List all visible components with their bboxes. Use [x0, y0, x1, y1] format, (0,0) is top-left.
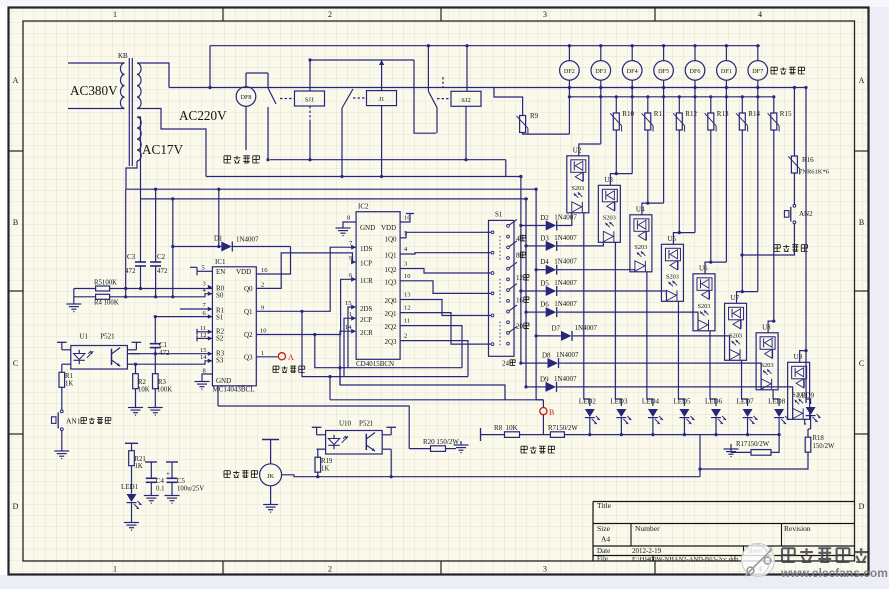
svg-text:8: 8	[347, 215, 350, 222]
svg-text:S203: S203	[571, 185, 584, 192]
resistor R7	[550, 432, 564, 438]
svg-text:8: 8	[516, 252, 520, 260]
svg-text:472: 472	[157, 267, 168, 275]
capacitor C5	[166, 461, 178, 463]
svg-text:1DS: 1DS	[360, 245, 373, 253]
proximity switch JK	[262, 439, 279, 441]
switch S1 arms	[509, 219, 517, 225]
svg-text:1Q3: 1Q3	[384, 279, 397, 287]
svg-text:D: D	[859, 502, 865, 511]
svg-text:2Q2: 2Q2	[384, 323, 397, 331]
svg-text:D6: D6	[540, 301, 549, 309]
wire IC2 2CP pin1	[344, 318, 351, 376]
svg-text:R1: R1	[65, 373, 73, 380]
wire contactor low bus	[270, 159, 506, 161]
optocoupler U10 P521	[326, 431, 383, 455]
ic IC2 CD4015BCN	[356, 212, 400, 360]
diode D3	[538, 245, 546, 247]
ground IC1	[202, 374, 212, 381]
label shoudong geichu	[774, 245, 780, 252]
wire link to U5	[673, 233, 695, 245]
svg-text:10K: 10K	[138, 387, 150, 394]
svg-text:R3: R3	[158, 379, 167, 386]
node B	[542, 400, 544, 407]
svg-text:IC2: IC2	[358, 203, 369, 211]
wire S1 to D6	[526, 311, 538, 313]
svg-text:VDD: VDD	[381, 224, 396, 232]
wire LED rail	[564, 434, 779, 436]
resistor R14	[739, 113, 745, 130]
svg-text:R15: R15	[780, 110, 792, 118]
svg-text:C4: C4	[156, 478, 165, 485]
switch for J1	[353, 97, 367, 99]
svg-text:S0: S0	[216, 292, 224, 300]
svg-text:D5: D5	[540, 280, 549, 288]
resistor R17	[724, 448, 739, 450]
svg-text:B: B	[13, 218, 18, 227]
svg-text:1N4007: 1N4007	[556, 351, 579, 359]
led LED3	[615, 242, 621, 406]
wire resistor top bus	[569, 96, 773, 98]
svg-text:P521: P521	[100, 333, 115, 341]
svg-text:E:\HJ400W-NHAN2-AND-B63-2cc.dd: E:\HJ400W-NHAN2-AND-B63-2cc.ddb	[632, 556, 738, 563]
svg-text:U6: U6	[699, 264, 708, 272]
svg-text:1N4007: 1N4007	[554, 279, 577, 287]
led LED5	[678, 301, 684, 406]
wire DF column 7	[725, 88, 727, 263]
label tuijin qigang	[224, 156, 231, 163]
svg-text:GND: GND	[216, 377, 231, 385]
wire link to U3	[610, 174, 632, 186]
svg-text:1N4007: 1N4007	[575, 324, 598, 332]
svg-text:LED6: LED6	[705, 398, 723, 406]
svg-text:IC1: IC1	[215, 258, 226, 266]
svg-text:EN: EN	[216, 268, 225, 276]
svg-text:1: 1	[113, 565, 117, 574]
relay coil J1	[367, 91, 397, 106]
svg-text:9: 9	[261, 305, 264, 312]
svg-text:DF4: DF4	[627, 68, 638, 75]
svg-text:AC17V: AC17V	[142, 142, 184, 157]
svg-text:1K: 1K	[135, 463, 143, 470]
wire bus riser	[209, 46, 211, 88]
wire mesh 5	[347, 367, 349, 369]
svg-text:A4: A4	[601, 535, 610, 544]
svg-text:R19: R19	[321, 458, 333, 465]
led LED8	[773, 390, 779, 406]
svg-text:2012-2-19: 2012-2-19	[632, 547, 662, 555]
svg-text:AC380V: AC380V	[70, 83, 118, 98]
svg-text:LED5: LED5	[673, 398, 691, 406]
led LED4	[647, 272, 653, 406]
svg-text:472: 472	[125, 267, 136, 275]
svg-text:LED8: LED8	[768, 398, 786, 406]
svg-text:DF8: DF8	[240, 94, 251, 101]
resistor R12	[676, 113, 682, 130]
wire IC2 outputs to S1	[400, 232, 478, 238]
svg-text:Date: Date	[597, 547, 610, 555]
wire B mesh	[330, 399, 543, 401]
resistor R3	[154, 354, 156, 374]
svg-text:12: 12	[516, 274, 524, 282]
wire D3 to U3	[564, 242, 603, 246]
svg-text:R12: R12	[685, 110, 697, 118]
led LED6	[710, 331, 716, 406]
resistor R9	[520, 116, 526, 133]
wire diode collector 3	[535, 226, 537, 400]
ground JK	[270, 486, 272, 504]
svg-text:24: 24	[502, 359, 510, 367]
svg-text:2: 2	[328, 10, 332, 19]
switch contact near DF8	[267, 73, 269, 88]
svg-text:AN1: AN1	[66, 417, 81, 426]
resistor R21	[125, 442, 138, 444]
svg-text:2Q1: 2Q1	[384, 310, 397, 318]
wire R bottom drop	[710, 130, 712, 262]
svg-text:R18: R18	[813, 435, 825, 442]
svg-text:5: 5	[202, 265, 205, 272]
svg-text:14: 14	[200, 354, 207, 361]
svg-text:2Q0: 2Q0	[384, 297, 397, 305]
wire IC1 EN pin5	[197, 270, 212, 272]
svg-text:D2: D2	[540, 214, 549, 222]
svg-text:150/2W: 150/2W	[813, 443, 835, 450]
wire top DF bus	[210, 45, 760, 47]
svg-text:13: 13	[404, 292, 411, 299]
wire 17V rail 1	[126, 188, 535, 190]
wire IC1 R3 pin15	[130, 353, 213, 355]
wire S1 to D2	[521, 225, 538, 227]
wire contactor bottom bus	[206, 176, 521, 178]
wire R bottom drop	[773, 130, 775, 321]
label xunhuan maichong	[521, 446, 527, 453]
svg-text:12: 12	[404, 305, 411, 312]
wire DF column 4	[631, 88, 633, 174]
wire IC1 Q1 pin9	[256, 247, 356, 311]
wire SJ2 coil top	[466, 46, 468, 92]
diode D5	[538, 290, 546, 292]
svg-text:U1: U1	[79, 333, 88, 341]
svg-text:1CR: 1CR	[360, 277, 373, 285]
wire DF column 8	[757, 88, 759, 292]
wire to U9 top	[800, 351, 806, 363]
wire link to U7	[737, 292, 758, 304]
wire D2 to U2	[564, 213, 572, 226]
wire U1 collector to IC1	[127, 353, 140, 355]
svg-text:Number: Number	[635, 524, 660, 533]
svg-text:2: 2	[328, 565, 332, 574]
lamp DF8	[236, 87, 256, 107]
lamp DF5	[663, 46, 665, 61]
wire D8 to U8	[566, 363, 761, 390]
wire D7 to U7	[580, 336, 730, 360]
wire DF column 5	[663, 88, 665, 204]
opto-triac U9	[788, 362, 810, 419]
wire DF8 top	[245, 73, 247, 87]
svg-text:File: File	[597, 555, 608, 563]
svg-text:1Q2: 1Q2	[384, 266, 397, 274]
wire IC2 VDD pin16	[400, 214, 410, 223]
svg-text:Revision: Revision	[784, 524, 811, 533]
svg-text:20: 20	[516, 323, 524, 331]
wire IC1 S0 pin4	[110, 294, 213, 297]
svg-text:A: A	[13, 76, 19, 85]
svg-text:4: 4	[516, 235, 520, 243]
border zone ticks	[222, 8, 224, 22]
lamp DF4	[631, 46, 633, 61]
diode D6	[538, 311, 546, 313]
svg-text:SJ1: SJ1	[305, 97, 314, 104]
svg-text:Q3: Q3	[244, 354, 253, 362]
resistor R1	[61, 364, 63, 372]
wire R9 bottom link	[523, 133, 570, 135]
svg-text:LED7: LED7	[737, 398, 755, 406]
diode D2	[538, 225, 546, 227]
ground AN1	[54, 450, 69, 452]
wire AC17V top tap	[137, 117, 141, 199]
svg-text:C2: C2	[157, 253, 166, 261]
wire S1 to D9	[526, 386, 538, 388]
wire link to U8	[768, 321, 774, 333]
opto-triac U8	[756, 333, 778, 390]
svg-text:R13: R13	[717, 110, 729, 118]
wire rail1 drop	[218, 189, 220, 246]
ic IC1 input arrows	[208, 285, 213, 289]
lamp DF2	[568, 46, 570, 61]
svg-text:B: B	[549, 408, 554, 417]
svg-text:472: 472	[159, 349, 170, 357]
lamp DF7	[757, 46, 759, 61]
resistor R20	[218, 406, 409, 449]
svg-text:R14: R14	[748, 110, 760, 118]
svg-text:CD4015BCN: CD4015BCN	[356, 360, 394, 368]
svg-text:U4: U4	[636, 205, 645, 213]
capacitor C3	[140, 199, 142, 262]
wire D5 to U5	[564, 291, 666, 301]
ground LED1	[131, 503, 133, 522]
diode D4	[538, 269, 546, 271]
svg-text:C: C	[859, 359, 864, 368]
wire DF8 bottom	[245, 106, 247, 150]
wire link to U2	[579, 144, 601, 156]
svg-text:U5: U5	[667, 235, 676, 243]
svg-text:4: 4	[758, 10, 762, 19]
wire R9 top	[494, 88, 523, 116]
resistor R10	[613, 113, 619, 130]
svg-text:Size: Size	[597, 524, 611, 533]
svg-text:+: +	[166, 470, 170, 478]
resistor R5	[96, 286, 110, 291]
svg-text:R7150/2W: R7150/2W	[548, 425, 578, 432]
svg-text:C: C	[13, 359, 18, 368]
wire J1 bottom	[381, 106, 383, 177]
svg-text:7NR61K*6: 7NR61K*6	[799, 169, 830, 176]
opto-triac U3	[598, 185, 620, 242]
svg-text:D4: D4	[540, 258, 549, 266]
svg-text:LED9: LED9	[797, 392, 815, 400]
svg-text:1Q1: 1Q1	[384, 252, 397, 260]
wire U9 to LED9 col	[805, 419, 806, 424]
svg-text:LED2: LED2	[579, 398, 597, 406]
svg-text:D9: D9	[540, 375, 549, 383]
wire collector top links	[520, 177, 522, 224]
wire secondary mid tap	[137, 109, 206, 177]
svg-text:2CR: 2CR	[360, 329, 373, 337]
watermark text	[782, 548, 795, 562]
svg-text:S203: S203	[666, 273, 679, 280]
led LED9	[806, 399, 811, 404]
wire R bottom drop	[678, 130, 680, 233]
resistor R8	[480, 428, 482, 441]
opto-triac U5	[661, 244, 683, 301]
resistor R16	[791, 156, 797, 173]
diode D7	[554, 335, 562, 337]
svg-text:U9: U9	[794, 353, 803, 361]
svg-text:D7: D7	[552, 324, 561, 332]
svg-text:1N4007: 1N4007	[236, 236, 259, 244]
wire R bottom drop	[647, 130, 649, 203]
wire IC1 Q3 pin1	[256, 356, 277, 358]
wire IC2 2CR pin14	[340, 331, 351, 385]
wire IC1 Q2 pin10	[256, 279, 356, 334]
wire low bus drop	[505, 160, 507, 177]
svg-text:LED3: LED3	[610, 398, 628, 406]
svg-text:JK: JK	[267, 473, 275, 480]
lamp DF6	[694, 46, 696, 61]
wire IC1 Q0 pin2	[256, 253, 356, 289]
svg-text:KB: KB	[118, 52, 128, 60]
ic IC2 input arrows	[351, 245, 356, 250]
wire right vertical bus	[805, 88, 807, 404]
svg-text:DF5: DF5	[658, 68, 669, 75]
wire mid bus drop	[414, 60, 436, 133]
svg-text:R17150/2W: R17150/2W	[736, 441, 770, 448]
wire IC1 S2 pin12	[197, 337, 212, 339]
resistor R2	[135, 364, 137, 374]
resistor R19	[317, 449, 318, 458]
wire R18 bottom	[700, 452, 808, 477]
svg-text:AC220V: AC220V	[179, 108, 227, 123]
wire DF column 2	[568, 88, 570, 135]
wire mesh 1	[302, 311, 468, 376]
ic IC1 MC14043BCL	[212, 267, 256, 386]
svg-text:Title: Title	[597, 501, 612, 510]
opto-triac U6	[693, 274, 715, 331]
svg-text:A: A	[288, 353, 294, 362]
resistor R13	[708, 113, 714, 130]
wire mesh 3	[340, 368, 505, 400]
wire IC1 S1 pin6	[155, 316, 212, 318]
wire SJ1 bottom	[309, 106, 311, 122]
wire D9 to U9	[564, 387, 793, 419]
pushbutton AN2	[793, 173, 795, 204]
wire rail drop to R5	[125, 189, 127, 297]
wire R16 column	[793, 88, 795, 157]
wire D1 anode feed	[520, 224, 522, 363]
svg-text:R21: R21	[135, 456, 146, 463]
svg-text:P521: P521	[359, 420, 374, 428]
svg-text:1K: 1K	[321, 466, 329, 473]
wire U10 emitter	[390, 449, 392, 477]
wire S1 to D7	[536, 335, 553, 337]
wire mesh 4	[329, 377, 331, 400]
svg-text:15: 15	[200, 347, 207, 354]
transformer KB	[120, 63, 124, 109]
relay coil SJ2	[451, 91, 481, 106]
wire D4 to U4	[564, 270, 635, 272]
wire SJ2 switch bottom	[436, 108, 438, 134]
svg-text:C3: C3	[127, 253, 136, 261]
wire DF column 6	[694, 88, 696, 233]
wire S1 to D4	[536, 269, 538, 271]
switch for SJ2	[437, 98, 451, 100]
pushbutton AN1	[61, 387, 63, 410]
svg-text:12: 12	[200, 332, 207, 339]
lamp DF1	[725, 46, 727, 61]
wire IC1 R0 pin3	[110, 288, 213, 290]
svg-text:S203: S203	[634, 244, 647, 251]
wire AC17V bottom tap	[126, 161, 137, 189]
switch for SJ1	[280, 98, 295, 100]
switch block S1	[489, 220, 515, 356]
svg-text:100u/25V: 100u/25V	[177, 486, 204, 493]
relay coil SJ1	[295, 91, 325, 106]
svg-text:10: 10	[404, 273, 411, 280]
wire IC1 R1 pin7	[180, 308, 212, 310]
wire mesh 2	[315, 335, 462, 368]
svg-text:3: 3	[543, 10, 547, 19]
wire rail drop	[699, 435, 701, 469]
wire AC220 rail	[169, 87, 806, 89]
wire SJ2 switch top	[427, 46, 429, 92]
svg-text:DF3: DF3	[595, 68, 606, 75]
wire link to U4	[642, 203, 664, 215]
resistor R11	[645, 113, 651, 130]
svg-text:1N4007: 1N4007	[554, 375, 577, 383]
svg-text:S203: S203	[698, 303, 711, 310]
capacitor C4	[145, 461, 157, 463]
svg-text:2CP: 2CP	[360, 316, 372, 324]
svg-text:R16: R16	[802, 156, 814, 164]
svg-text:2: 2	[261, 282, 264, 289]
svg-text:16: 16	[261, 267, 268, 274]
svg-text:DF7: DF7	[752, 68, 763, 75]
svg-text:D8: D8	[542, 352, 551, 360]
label jiejin kaiguan	[224, 471, 230, 478]
svg-text:Q0: Q0	[244, 285, 253, 293]
svg-text:DF1: DF1	[721, 68, 732, 75]
resistor R18	[808, 428, 811, 430]
svg-text:U7: U7	[731, 294, 740, 302]
wire diode collector 2	[525, 246, 527, 387]
svg-text:10: 10	[260, 328, 267, 335]
watermark logo circle	[742, 544, 775, 577]
svg-text:1N4007: 1N4007	[554, 214, 577, 222]
svg-text:3: 3	[543, 565, 547, 574]
svg-text:1N4007: 1N4007	[554, 234, 577, 242]
svg-text:S203: S203	[729, 332, 742, 339]
svg-text:R9: R9	[530, 112, 539, 120]
wire rail1 end drop	[534, 188, 536, 190]
svg-text:16: 16	[516, 297, 524, 305]
svg-text:MC14043BCL: MC14043BCL	[213, 386, 255, 394]
svg-text:100K: 100K	[157, 387, 172, 394]
wire S1 to D8	[521, 362, 540, 364]
svg-text:U8: U8	[762, 323, 771, 331]
wire B to mesh	[536, 399, 543, 401]
optocoupler U1 P521	[71, 346, 128, 370]
wire AN2 bottom	[742, 226, 794, 255]
